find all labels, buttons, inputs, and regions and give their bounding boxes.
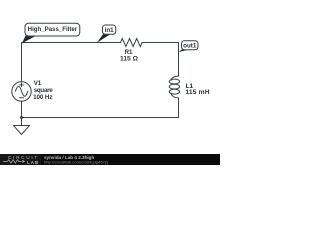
flag High_Pass_Filter bbox=[22, 23, 80, 43]
logo resistor glyph bbox=[3, 160, 22, 163]
svg-text:R1: R1 bbox=[125, 49, 133, 56]
wire resistor to top-right corner bbox=[142, 42, 178, 44]
svg-text:LAB: LAB bbox=[27, 160, 39, 165]
wire top-left vertical to source bbox=[21, 43, 23, 82]
wire right vertical to inductor bbox=[178, 43, 180, 77]
svg-text:115 mH: 115 mH bbox=[185, 89, 209, 96]
svg-text:square: square bbox=[34, 87, 54, 94]
voltage source V1 bbox=[12, 82, 31, 101]
wire top-left to resistor bbox=[22, 42, 121, 44]
wire source to ground bbox=[21, 101, 23, 125]
svg-text:High_Pass_Filter: High_Pass_Filter bbox=[28, 26, 78, 33]
svg-text:http://circuitlab.com/c/333g3p: http://circuitlab.com/c/333g3p457pj bbox=[44, 159, 108, 164]
svg-text:in1: in1 bbox=[105, 27, 114, 34]
svg-text:100 Hz: 100 Hz bbox=[33, 94, 52, 101]
footer bar bbox=[0, 154, 220, 165]
resistor R1 bbox=[121, 39, 143, 47]
flag in1 bbox=[97, 25, 116, 43]
canvas background bbox=[0, 0, 220, 165]
svg-text:V1: V1 bbox=[34, 80, 42, 87]
inductor L1 bbox=[171, 76, 178, 80]
flag out1 bbox=[178, 41, 198, 52]
svg-text:out1: out1 bbox=[183, 42, 197, 49]
svg-text:CIRCUIT: CIRCUIT bbox=[8, 155, 39, 160]
svg-text:115 Ω: 115 Ω bbox=[120, 56, 139, 63]
junction bbox=[20, 116, 23, 119]
ground bbox=[14, 126, 30, 135]
wire inductor to bottom-right corner bbox=[178, 98, 180, 118]
wire bottom bbox=[22, 117, 179, 119]
footer logo box bbox=[0, 154, 41, 165]
